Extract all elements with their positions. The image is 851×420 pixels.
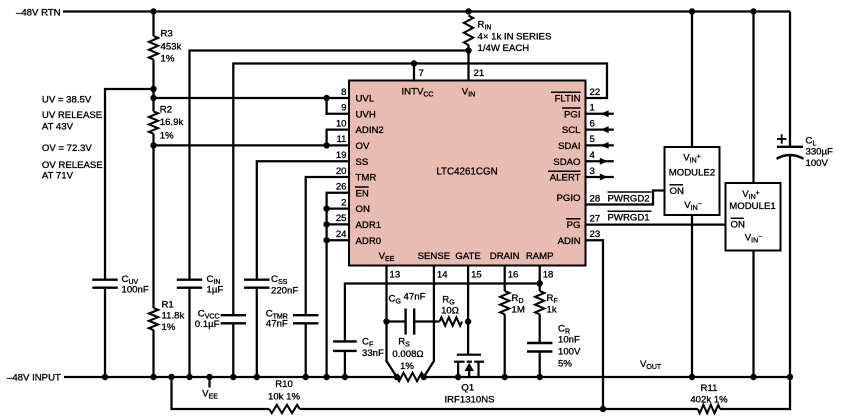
node ON join [323, 205, 329, 211]
wire CUV bottom [104, 288, 106, 377]
svg-text:ADR0: ADR0 [356, 236, 382, 247]
capacitor CIN [177, 279, 202, 281]
svg-text:1M: 1M [512, 305, 525, 316]
svg-text:R1: R1 [162, 300, 174, 311]
wire CG to RG [414, 320, 439, 322]
svg-text:OV RELEASE: OV RELEASE [42, 160, 103, 171]
svg-text:16: 16 [508, 270, 519, 281]
svg-text:0.008Ω: 0.008Ω [392, 349, 423, 360]
svg-text:ALERT: ALERT [550, 173, 581, 184]
node top rail / MODULE1 VIN+ [750, 8, 756, 14]
svg-text:UVL: UVL [356, 94, 375, 105]
svg-text:1%: 1% [400, 361, 414, 372]
svg-text:24: 24 [336, 229, 347, 240]
svg-text:PGI: PGI [564, 109, 581, 120]
power VEE tick [208, 377, 210, 388]
resistor R1 [149, 308, 158, 330]
node top rail / R3 [150, 8, 156, 14]
resistor RF [535, 291, 544, 314]
svg-text:AT 43V: AT 43V [42, 122, 74, 133]
transistor Q1 gate plate [457, 354, 481, 356]
svg-text:ADR1: ADR1 [356, 220, 382, 231]
svg-text:MODULE2: MODULE2 [669, 168, 715, 179]
svg-text:ON: ON [731, 220, 745, 231]
svg-text:10k 1%: 10k 1% [268, 392, 300, 403]
svg-text:13: 13 [390, 270, 401, 281]
wire ON (pin2) [327, 207, 349, 209]
node INTVCC / pin7 [411, 60, 417, 66]
node rail / CF [342, 374, 348, 380]
node rail / RS right [421, 374, 427, 380]
wire TMR (pin20) to CTMR [306, 177, 349, 315]
module MODULE2 box [665, 147, 720, 215]
node rail / R1 [150, 374, 156, 380]
svg-text:4× 1k IN SERIES: 4× 1k IN SERIES [478, 32, 552, 43]
node rail / CUV [102, 374, 108, 380]
wire PGIO (pin28) to MODULE2 ON [586, 191, 665, 205]
svg-text:2: 2 [341, 197, 346, 208]
wire VIN net (RIN to CIN) [190, 51, 469, 280]
svg-text:DRAIN: DRAIN [490, 251, 520, 262]
svg-text:330µF: 330µF [806, 147, 834, 158]
svg-text:0.1µF: 0.1µF [195, 319, 220, 330]
node ADR0 join [323, 237, 329, 243]
wire SDAI (pin5) with arrow [586, 144, 614, 146]
node rail / CR [537, 374, 543, 380]
svg-text:9: 9 [341, 103, 346, 114]
label CL plus sign [777, 138, 786, 140]
capacitor CG [404, 309, 406, 335]
svg-text:PWRGD1: PWRGD1 [608, 213, 650, 224]
wire ADIN (pin23) to divider [586, 240, 604, 409]
svg-text:100V: 100V [806, 158, 829, 169]
svg-text:1: 1 [590, 103, 595, 114]
node rail / VEE tick [206, 374, 212, 380]
wire -48V RTN top rail [63, 10, 790, 12]
node rail / CVCC [230, 374, 236, 380]
svg-text:Q1: Q1 [461, 383, 474, 394]
svg-text:UV = 38.5V: UV = 38.5V [42, 94, 92, 105]
wire CSS bottom [256, 288, 258, 377]
svg-text:RAMP: RAMP [526, 251, 554, 262]
svg-text:33nF: 33nF [362, 348, 384, 359]
wire MODULE2 VIN+ supply [691, 12, 693, 148]
svg-text:10Ω: 10Ω [441, 306, 459, 317]
wire MODULE1 VIN- return [752, 251, 754, 378]
wire divider to CUV branch [105, 89, 154, 280]
svg-text:23: 23 [590, 229, 601, 240]
svg-text:EN: EN [356, 188, 369, 199]
svg-text:15: 15 [471, 270, 482, 281]
svg-text:PWRGD2: PWRGD2 [608, 193, 650, 204]
node VIN / RIN bottom [465, 47, 471, 53]
svg-text:SENSE: SENSE [418, 251, 451, 262]
resistor R11 [698, 405, 720, 413]
resistor R2 [149, 111, 158, 133]
svg-text:11: 11 [337, 134, 347, 145]
capacitor CL plus plate [777, 146, 803, 148]
node rail / CL return [787, 374, 793, 380]
node rail / RD [502, 374, 508, 380]
svg-text:1%: 1% [162, 322, 176, 333]
wire R3 top [152, 12, 154, 37]
svg-text:1/4W EACH: 1/4W EACH [478, 43, 530, 54]
wire EN (pin26) to VEE chain [327, 193, 349, 377]
capacitor CF [333, 340, 357, 342]
wire -48V INPUT rail [64, 376, 397, 378]
svg-text:LTC4261CGN: LTC4261CGN [436, 167, 497, 178]
wire SS (pin19) to CSS [257, 161, 349, 280]
node rail / Q1 source [455, 374, 461, 380]
svg-text:ON: ON [356, 204, 370, 215]
node top rail / RIN [465, 8, 471, 14]
node top rail / MODULE2 VIN+ [689, 8, 695, 14]
wire CVCC bottom [232, 323, 234, 377]
svg-text:ADIN2: ADIN2 [356, 125, 384, 136]
svg-text:UV RELEASE: UV RELEASE [42, 110, 102, 121]
resistor RG [440, 317, 463, 325]
transistor Q1 drain lead [477, 362, 479, 377]
svg-text:4: 4 [590, 150, 596, 161]
wire OV tap to R1 [152, 145, 154, 308]
wire CL top [789, 12, 791, 147]
svg-text:22: 22 [590, 87, 601, 98]
node rail / MODULE2 return [689, 374, 695, 380]
svg-text:11.8k: 11.8k [162, 311, 185, 322]
svg-text:7: 7 [419, 68, 424, 79]
svg-text:1µF: 1µF [207, 285, 224, 296]
svg-text:1%: 1% [160, 131, 174, 142]
wire DRAIN pin16 top [504, 266, 506, 292]
svg-text:18: 18 [543, 270, 554, 281]
module MODULE1 box [726, 183, 781, 251]
svg-text:402k 1%: 402k 1% [690, 395, 728, 406]
svg-text:UVH: UVH [356, 109, 376, 120]
wire MODULE1 VIN+ supply [752, 12, 754, 184]
svg-text:ON: ON [670, 186, 684, 197]
node rail / RS left [394, 374, 400, 380]
svg-text:AT 71V: AT 71V [42, 171, 74, 182]
node rail / R10 drop [168, 374, 174, 380]
svg-text:220nF: 220nF [271, 286, 298, 297]
resistor RD [500, 291, 509, 314]
node rail / CSS [254, 374, 260, 380]
svg-text:R11: R11 [701, 383, 718, 394]
wire UVL (pin8) [154, 97, 350, 99]
wire CF bottom [344, 351, 346, 377]
svg-text:453k: 453k [161, 42, 182, 53]
wire CR bottom [539, 352, 541, 378]
node rail / CTMR [303, 374, 309, 380]
wire PG (pin27) to MODULE1 ON [586, 223, 726, 225]
svg-text:SCL: SCL [562, 125, 581, 136]
svg-text:16.9k: 16.9k [160, 117, 184, 128]
svg-text:100V: 100V [558, 347, 581, 358]
node R3/R2/UV divider [150, 86, 156, 92]
svg-text:–48V RTN: –48V RTN [16, 8, 61, 19]
wire CG left [387, 320, 406, 322]
node ADR1 join [323, 221, 329, 227]
wire RF to CR [539, 314, 541, 343]
wire VEE pin13 sense [387, 266, 397, 378]
wire CTMR bottom [305, 323, 307, 377]
wire R1 bottom [152, 330, 154, 377]
svg-text:IRF1310NS: IRF1310NS [444, 395, 494, 406]
wire ADR0 (pin24) [327, 239, 349, 241]
wire ADIN2 (pin10) [327, 130, 349, 146]
svg-text:8: 8 [341, 87, 346, 98]
op-amp U1 LTC4261CGN body [349, 81, 586, 266]
node UVL tap [150, 95, 156, 101]
svg-text:PGIO: PGIO [557, 193, 581, 204]
svg-text:19: 19 [336, 150, 347, 161]
wire SCL (pin6) with arrow [586, 128, 614, 130]
node UVL/UVH join [323, 95, 329, 101]
svg-text:6: 6 [590, 118, 595, 129]
capacitor CUV [92, 279, 117, 281]
svg-text:10nF: 10nF [558, 335, 580, 346]
svg-text:R2: R2 [160, 105, 172, 116]
svg-text:14: 14 [437, 270, 448, 281]
svg-text:20: 20 [336, 166, 347, 177]
svg-text:47nF: 47nF [266, 319, 288, 330]
svg-text:25: 25 [336, 213, 347, 224]
capacitor CTMR [293, 314, 318, 316]
wire RD bottom [504, 314, 506, 377]
wire CL bottom [789, 156, 791, 378]
svg-text:FLTIN: FLTIN [555, 94, 581, 105]
node rail / EN chain [323, 374, 329, 380]
transistor Q1 body arrow [468, 368, 470, 377]
node pin13 / CG [383, 318, 389, 324]
svg-text:5%: 5% [558, 359, 572, 370]
svg-text:GATE: GATE [455, 251, 480, 262]
node RG / gate [465, 318, 471, 324]
svg-text:1%: 1% [161, 54, 175, 65]
svg-text:R10: R10 [275, 379, 293, 390]
wire OV (pin11) [154, 144, 350, 146]
resistor RS (sense) [397, 373, 424, 381]
wire R3 bottom [152, 60, 154, 90]
transistor Q1 channel segments [454, 361, 465, 363]
node rail / MODULE1 return [750, 374, 756, 380]
svg-text:PG: PG [567, 220, 581, 231]
wire SDAO (pin4) with arrow [586, 160, 614, 162]
wire R10 to R11 [300, 408, 698, 410]
wire RAMP pin18 top [539, 266, 541, 292]
node OV tap [150, 142, 156, 148]
svg-text:21: 21 [474, 68, 485, 79]
node ADIN2/OV join [323, 142, 329, 148]
wire CIN bottom [188, 288, 190, 377]
svg-text:OV: OV [356, 141, 370, 152]
node pin18 / CF line [537, 280, 543, 286]
wire VIN to pin21 [467, 51, 469, 81]
svg-text:ADIN: ADIN [558, 236, 581, 247]
capacitor CVCC [221, 314, 246, 316]
wire ADR1 (pin25) [327, 223, 349, 225]
svg-text:SDAI: SDAI [558, 141, 580, 152]
svg-text:27: 27 [590, 213, 601, 224]
svg-text:–48V INPUT: –48V INPUT [7, 373, 61, 384]
svg-text:SDAO: SDAO [553, 157, 580, 168]
svg-text:OV = 72.3V: OV = 72.3V [42, 143, 92, 154]
svg-text:3: 3 [590, 166, 595, 177]
wire rail RS to VOUT end [424, 376, 790, 378]
svg-text:5: 5 [590, 134, 595, 145]
wire GATE pin15 [467, 266, 469, 355]
svg-text:100nF: 100nF [122, 285, 149, 296]
node rail / CIN [186, 374, 192, 380]
wire R11 to VOUT [720, 377, 790, 409]
resistor RIN [464, 16, 473, 46]
svg-text:R3: R3 [161, 29, 173, 40]
wire MODULE2 VIN- return [691, 215, 693, 377]
wire R2 bottom [152, 134, 154, 146]
wire UVL tap to R2 [152, 89, 154, 111]
wire SENSE pin14 sense [424, 266, 434, 378]
wire ALERT (pin3) with arrow [586, 176, 614, 178]
resistor R3 [149, 36, 158, 60]
wire UVH (pin9) [327, 98, 349, 114]
svg-text:TMR: TMR [356, 173, 377, 184]
wire INTVCC net (CVCC to FLTIN) [233, 64, 607, 316]
capacitor CR [527, 342, 552, 344]
wire PGI (pin1) with arrow [586, 113, 614, 115]
wire INTVCC to pin7 [413, 64, 415, 81]
svg-text:SS: SS [356, 157, 369, 168]
wire RIN bottom [467, 45, 469, 51]
svg-text:28: 28 [590, 193, 601, 204]
svg-text:1k: 1k [547, 305, 557, 316]
wire VEE to R10 [172, 377, 270, 409]
node ADIN divider tap [600, 406, 606, 412]
svg-text:26: 26 [336, 182, 347, 193]
svg-text:10: 10 [336, 118, 347, 129]
wire RAMP to CF [345, 284, 540, 342]
svg-text:MODULE1: MODULE1 [729, 201, 775, 212]
capacitor CSS [244, 279, 269, 281]
resistor R10 [269, 405, 300, 413]
capacitor CL curved plate [777, 155, 804, 159]
transistor Q1 source lead [457, 362, 459, 377]
